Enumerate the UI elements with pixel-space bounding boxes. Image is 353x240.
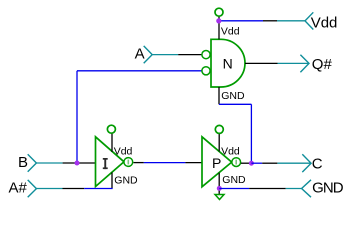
wire net bubble2: blue vertical down to B junction <box>76 71 78 163</box>
wire A net: teal segment <box>152 54 178 56</box>
svg-text:Vdd: Vdd <box>311 14 338 31</box>
connector A chevron <box>144 46 153 63</box>
N input bubble 2 <box>202 67 210 75</box>
connector Vdd (top right) chevron <box>305 12 313 29</box>
wire Vdd net: black segment <box>263 20 277 22</box>
wire C net: teal segment <box>277 162 311 164</box>
svg-text:C: C <box>312 156 323 173</box>
buffer P triangle <box>202 137 232 187</box>
svg-text:A#: A# <box>9 180 28 197</box>
svg-text:Vdd: Vdd <box>221 26 240 38</box>
wire N GND net: blue vertical down to P output node <box>250 104 252 163</box>
wire A net: black segment to N input 1 <box>178 54 202 56</box>
wire bottom net: black segment <box>63 188 85 190</box>
wire B net: black segment to inverter I input <box>63 162 96 164</box>
svg-text:GND: GND <box>221 90 245 102</box>
N top Vdd pin <box>218 16 220 40</box>
I top terminal circle <box>107 125 115 133</box>
junction dot at N Vdd pin <box>216 18 221 23</box>
connector C arrow <box>302 154 311 172</box>
I output state tick <box>127 160 129 165</box>
P bottom GND pin <box>218 173 220 194</box>
wire GND net: blue segment from P GND junction <box>219 188 249 190</box>
svg-text:Vdd: Vdd <box>221 145 240 157</box>
wire P output: black stub to junction <box>241 162 250 164</box>
wire C net: black segment <box>251 162 262 164</box>
inverter I triangle <box>96 137 125 187</box>
op N gate body (D shape) <box>211 39 245 87</box>
I bottom GND pin <box>111 172 113 188</box>
I top Vdd pin <box>111 133 113 152</box>
junction dot at P GND pin <box>217 186 222 191</box>
svg-text:GND: GND <box>114 174 138 186</box>
junction dot at B node <box>75 161 80 166</box>
wire N output: teal segment <box>278 62 310 64</box>
wire Vdd net: teal segment to Vdd connector <box>277 20 305 22</box>
N bottom GND pin <box>218 87 220 104</box>
I output bubble <box>124 158 133 167</box>
P output bubble <box>232 158 241 167</box>
wire I output: black segment to P input <box>185 162 202 164</box>
wire N output: black segment <box>245 62 278 64</box>
wire Vdd net: blue segment from N top pin junction <box>219 20 263 22</box>
svg-text:GND: GND <box>222 174 246 186</box>
wire I output: blue segment <box>144 162 186 164</box>
svg-text:P: P <box>212 155 221 171</box>
wire net bubble2: blue horizontal from N input 2 <box>77 70 202 72</box>
svg-text:B: B <box>18 154 28 171</box>
svg-text:N: N <box>223 56 233 72</box>
wire B net: teal segment <box>36 162 62 164</box>
svg-text:Vdd: Vdd <box>114 146 133 158</box>
wire GND net: black segment <box>249 188 286 190</box>
N input bubble 1 <box>202 51 210 59</box>
connector GND chevron <box>302 180 311 197</box>
wire bottom net: teal from A# <box>36 188 62 190</box>
svg-text:Q#: Q# <box>312 56 333 73</box>
P output state tick <box>235 160 237 165</box>
connector A# chevron <box>28 180 37 197</box>
junction dot at P output node <box>249 161 254 166</box>
wire I output: black stub <box>134 162 144 164</box>
I gate label (serif I) <box>103 158 108 169</box>
connector B chevron <box>28 154 37 171</box>
svg-text:GND: GND <box>312 180 344 197</box>
P top terminal circle <box>215 125 223 133</box>
N top terminal circle <box>215 8 223 16</box>
svg-text:A: A <box>135 46 145 63</box>
wire GND net: teal segment to GND connector <box>286 188 302 190</box>
ground symbol under P <box>215 195 224 200</box>
connector Q# arrow <box>300 55 309 72</box>
wire N GND net: blue horizontal <box>219 103 251 105</box>
wire bottom net: blue segment ending at I GND pin <box>84 188 112 190</box>
P top Vdd pin <box>218 133 220 152</box>
